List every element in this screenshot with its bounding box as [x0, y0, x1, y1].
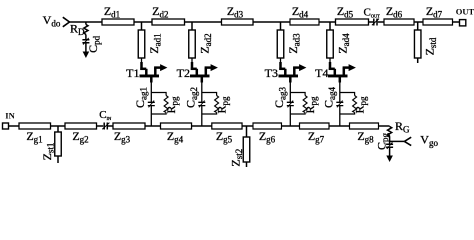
svg-text:COUT: COUT — [364, 7, 381, 19]
svg-text:Zst1: Zst1 — [40, 143, 56, 161]
svg-text:Zg2: Zg2 — [72, 129, 88, 145]
svg-text:IN: IN — [5, 111, 15, 121]
svg-text:Zad1: Zad1 — [147, 33, 163, 53]
svg-text:Zd1: Zd1 — [104, 4, 120, 20]
svg-text:Zg8: Zg8 — [357, 129, 374, 145]
svg-text:RG: RG — [395, 119, 410, 135]
svg-text:T1: T1 — [126, 66, 139, 80]
svg-text:CIN: CIN — [99, 109, 112, 121]
svg-text:Zstd: Zstd — [422, 37, 438, 55]
svg-text:Zd3: Zd3 — [227, 4, 244, 20]
svg-text:OUT: OUT — [456, 7, 474, 17]
svg-text:Zd4: Zd4 — [292, 4, 309, 20]
svg-text:Zst2: Zst2 — [229, 149, 245, 167]
svg-text:Zd2: Zd2 — [152, 4, 168, 20]
svg-text:Zd7: Zd7 — [426, 4, 443, 20]
svg-text:Zad4: Zad4 — [336, 33, 352, 54]
svg-text:T4: T4 — [315, 66, 328, 80]
svg-text:Cag3: Cag3 — [272, 86, 288, 108]
svg-text:Zg7: Zg7 — [308, 129, 325, 145]
svg-text:Cag4: Cag4 — [321, 86, 337, 108]
svg-text:Cpg: Cpg — [375, 132, 391, 150]
svg-text:Vgo: Vgo — [420, 133, 438, 149]
svg-text:T2: T2 — [177, 66, 190, 80]
svg-text:Zg5: Zg5 — [216, 129, 233, 145]
svg-text:Cag1: Cag1 — [133, 87, 149, 108]
svg-text:Zg3: Zg3 — [114, 129, 131, 145]
svg-text:Zd5: Zd5 — [337, 4, 354, 20]
svg-text:RD: RD — [70, 22, 85, 38]
svg-text:Zg6: Zg6 — [259, 129, 276, 145]
svg-text:Cag2: Cag2 — [183, 87, 199, 108]
svg-text:Zg4: Zg4 — [167, 129, 184, 145]
svg-text:Vdo: Vdo — [43, 13, 61, 29]
svg-text:Zd6: Zd6 — [386, 4, 403, 20]
svg-text:Zad2: Zad2 — [198, 33, 214, 53]
svg-text:Zg1: Zg1 — [26, 129, 42, 145]
svg-text:T3: T3 — [265, 66, 278, 80]
svg-text:Zad3: Zad3 — [286, 33, 302, 54]
